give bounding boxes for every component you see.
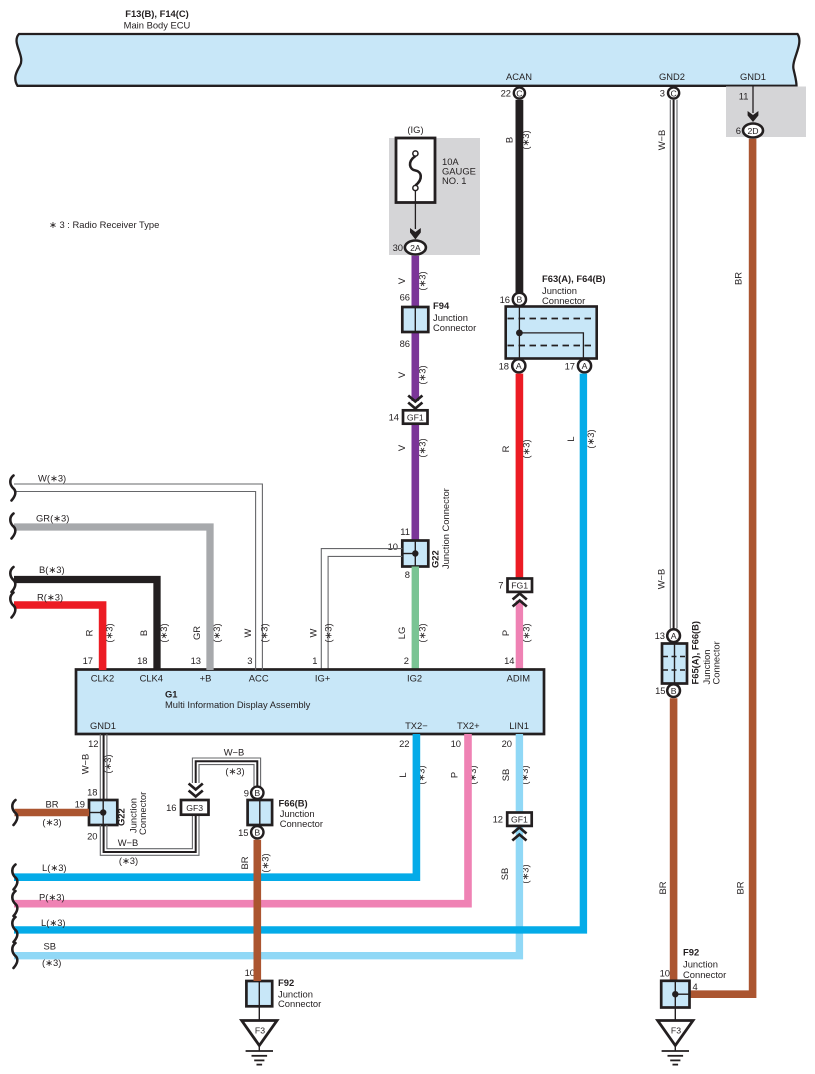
svg-text:GF1: GF1 [407,412,424,422]
svg-text:(∗3): (∗3) [417,271,428,290]
svg-text:TX2+: TX2+ [457,720,480,731]
svg-text:P: P [500,630,511,636]
svg-text:1: 1 [312,655,317,666]
svg-text:15: 15 [655,685,665,696]
svg-text:Junction: Junction [683,959,718,970]
svg-text:Connector: Connector [711,641,722,684]
svg-text:20: 20 [87,831,97,842]
svg-text:B: B [254,828,260,838]
svg-text:Connector: Connector [278,998,321,1009]
svg-text:W: W [242,628,253,637]
svg-text:F63(A), F64(B): F63(A), F64(B) [542,273,606,284]
svg-text:BR: BR [657,881,668,894]
svg-text:3: 3 [247,655,252,666]
svg-text:LG: LG [396,627,407,640]
svg-text:R(∗3): R(∗3) [37,592,63,603]
svg-text:V: V [396,444,407,451]
svg-text:L(∗3): L(∗3) [42,862,67,873]
svg-text:BR: BR [733,272,744,285]
svg-text:GND1: GND1 [740,71,766,82]
svg-text:17: 17 [83,655,93,666]
svg-text:L: L [565,436,576,441]
svg-text:SB: SB [44,941,57,952]
svg-text:3: 3 [660,88,665,99]
svg-text:F65(A), F66(B): F65(A), F66(B) [690,621,701,685]
svg-text:13: 13 [655,630,665,641]
svg-text:GR: GR [191,626,202,640]
svg-text:CLK4: CLK4 [140,673,163,684]
svg-text:+B: +B [200,673,212,684]
svg-text:(∗3): (∗3) [260,853,271,872]
svg-text:BR: BR [239,856,250,869]
svg-text:ACAN: ACAN [506,71,532,82]
svg-text:L: L [397,772,408,777]
svg-text:LIN1: LIN1 [509,720,529,731]
svg-text:12: 12 [88,738,98,749]
svg-text:ADIM: ADIM [507,673,531,684]
svg-text:4: 4 [693,981,698,992]
svg-text:G22: G22 [116,808,127,826]
svg-text:W−B: W−B [118,837,139,848]
svg-text:FG1: FG1 [511,581,528,591]
svg-text:(∗3): (∗3) [42,817,61,828]
svg-text:B: B [138,630,149,636]
svg-text:C: C [516,88,522,98]
svg-text:10: 10 [660,968,670,979]
svg-text:10: 10 [451,738,461,749]
svg-text:16: 16 [166,802,176,813]
svg-text:BR: BR [45,799,58,810]
svg-text:W(∗3): W(∗3) [38,473,66,484]
svg-text:GR(∗3): GR(∗3) [36,513,69,524]
svg-text:G22: G22 [430,550,441,568]
svg-text:2D: 2D [747,126,758,136]
svg-text:11: 11 [400,526,410,537]
svg-text:6: 6 [736,125,741,136]
svg-text:Connector: Connector [433,322,476,333]
svg-text:(∗3): (∗3) [42,957,61,968]
svg-text:∗ 3 : Radio Receiver Type: ∗ 3 : Radio Receiver Type [49,219,159,230]
svg-text:8: 8 [405,569,410,580]
svg-text:22: 22 [501,88,511,99]
svg-text:14: 14 [504,655,514,666]
svg-text:(∗3): (∗3) [417,623,428,642]
svg-text:(∗3): (∗3) [417,438,428,457]
svg-text:P(∗3): P(∗3) [39,892,65,903]
svg-text:W−B: W−B [80,754,91,775]
svg-text:(∗3): (∗3) [520,130,531,149]
svg-text:B: B [517,295,523,305]
svg-text:18: 18 [137,655,147,666]
svg-text:G1: G1 [165,688,178,699]
svg-text:NO. 1: NO. 1 [442,175,467,186]
svg-text:18: 18 [87,787,97,798]
svg-text:BR: BR [735,881,746,894]
svg-text:W: W [308,628,319,637]
svg-text:W−B: W−B [224,747,245,758]
svg-text:2A: 2A [410,243,421,253]
svg-text:11: 11 [739,91,749,102]
svg-text:Connector: Connector [137,792,148,835]
svg-text:Multi Information Display Asse: Multi Information Display Assembly [165,699,311,710]
svg-text:15: 15 [238,827,248,838]
svg-text:B: B [254,788,260,798]
svg-text:TX2−: TX2− [405,720,428,731]
svg-text:16: 16 [500,294,510,305]
svg-text:22: 22 [399,738,409,749]
svg-text:W−B: W−B [656,569,667,590]
svg-text:F3: F3 [255,1026,265,1036]
svg-text:2: 2 [404,655,409,666]
svg-text:(∗3): (∗3) [521,623,532,642]
svg-text:F3: F3 [671,1026,681,1036]
svg-text:10: 10 [388,541,398,552]
svg-text:A: A [582,361,588,371]
svg-text:7: 7 [498,580,503,591]
svg-text:Connector: Connector [542,295,585,306]
svg-text:(∗3): (∗3) [225,766,244,777]
svg-text:(∗3): (∗3) [119,855,138,866]
svg-text:(∗3): (∗3) [417,365,428,384]
svg-text:(∗3): (∗3) [521,439,532,458]
svg-text:P: P [449,772,460,778]
svg-text:13: 13 [191,655,201,666]
svg-text:12: 12 [493,814,503,825]
svg-text:Junction Connector: Junction Connector [440,488,451,569]
svg-text:CLK2: CLK2 [91,673,114,684]
svg-text:Connector: Connector [280,818,323,829]
svg-text:IG2: IG2 [407,673,422,684]
svg-text:B: B [504,137,515,143]
svg-text:V: V [396,277,407,284]
svg-text:(∗3): (∗3) [104,623,115,642]
svg-text:(∗3): (∗3) [158,623,169,642]
svg-text:19: 19 [75,799,85,810]
svg-text:20: 20 [502,738,512,749]
svg-text:W−B: W−B [656,130,667,151]
svg-text:A: A [516,361,522,371]
svg-text:F13(B), F14(C): F13(B), F14(C) [125,8,189,19]
svg-text:ACC: ACC [249,673,269,684]
svg-text:V: V [396,371,407,378]
svg-text:F92: F92 [278,977,294,988]
svg-text:L(∗3): L(∗3) [41,917,66,928]
svg-text:B(∗3): B(∗3) [39,564,65,575]
svg-text:SB: SB [500,769,511,782]
svg-text:14: 14 [389,412,399,423]
svg-text:18: 18 [499,360,509,371]
svg-text:GND2: GND2 [659,71,685,82]
svg-text:66: 66 [400,292,410,303]
svg-text:A: A [671,631,677,641]
svg-text:B: B [671,686,677,696]
svg-text:GF3: GF3 [186,803,203,813]
svg-text:9: 9 [244,787,249,798]
svg-text:Connector: Connector [683,969,726,980]
svg-text:F66(B): F66(B) [279,798,308,809]
svg-text:GF1: GF1 [511,815,528,825]
svg-text:R: R [500,445,511,452]
svg-text:GND1: GND1 [90,720,116,731]
svg-text:IG+: IG+ [315,673,331,684]
svg-text:86: 86 [400,338,410,349]
svg-text:(∗3): (∗3) [259,623,270,642]
svg-text:R: R [84,629,95,636]
svg-text:Main Body ECU: Main Body ECU [124,20,191,31]
svg-text:17: 17 [565,360,575,371]
svg-text:(IG): (IG) [407,124,423,135]
svg-text:30: 30 [393,242,403,253]
svg-text:(∗3): (∗3) [323,623,334,642]
svg-text:F94: F94 [433,300,450,311]
svg-text:F92: F92 [683,947,699,958]
svg-text:SB: SB [499,868,510,881]
svg-text:C: C [670,88,676,98]
svg-text:10: 10 [245,967,255,978]
svg-text:(∗3): (∗3) [211,623,222,642]
